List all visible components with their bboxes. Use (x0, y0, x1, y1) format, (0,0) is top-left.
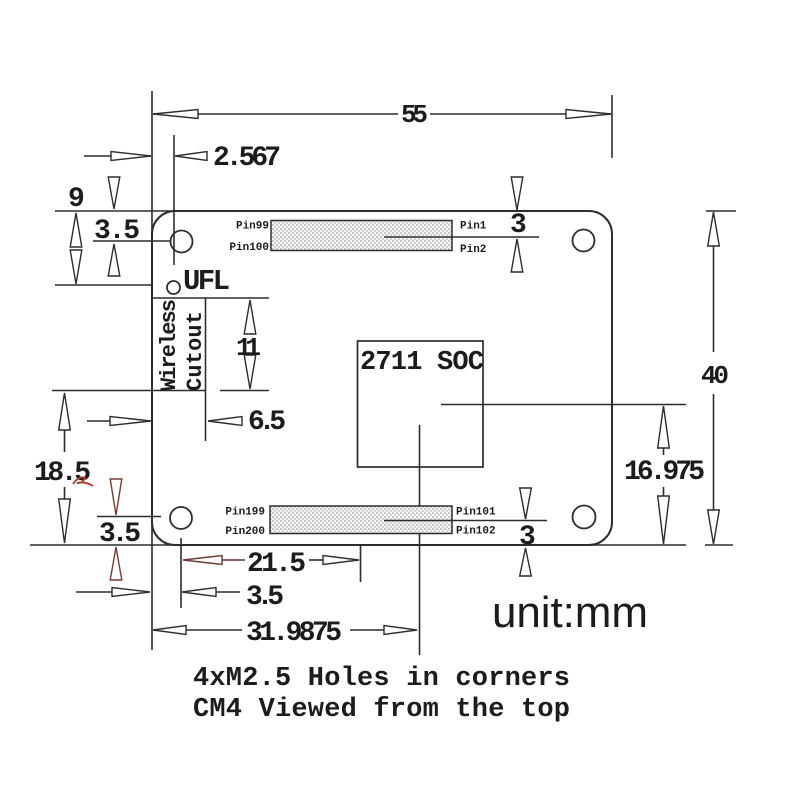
wire bottom hole center extension x=181 (180, 538, 182, 608)
svg-text:16.975: 16.975 (624, 457, 705, 488)
wire SOC center vertical leader x=419.5 (419, 425, 421, 655)
wire UFL reference line y=285 (55, 284, 152, 286)
arrow 3.5h right-outside (182, 588, 216, 597)
wire 40 top tick y=211 (706, 210, 736, 212)
UFL connector circle (167, 281, 180, 294)
svg-text:2711 SOC: 2711 SOC (360, 348, 484, 378)
arrow 31.9875 left (153, 626, 186, 635)
dimension 6.5 tail line (87, 420, 110, 422)
hole top-left M2.5 (171, 231, 193, 253)
SOC box (358, 341, 484, 467)
board outline CM4 (152, 211, 612, 545)
arrow 6.5 left-outside (110, 417, 151, 426)
arrow 21.5 right (323, 556, 359, 565)
wire extension line left board edge x=152 (151, 91, 153, 650)
arrow 3.5bl down-outside red tinted (110, 479, 122, 515)
arrow 18.5 down (59, 499, 71, 543)
wire extension line x=174 UFL center for 2.567 dim (173, 135, 175, 265)
wire bottom connector centerline y=520.5 (384, 520, 547, 522)
svg-text:Pin101: Pin101 (456, 507, 496, 519)
red pen squiggle near 18.5 (73, 477, 93, 486)
wire 21.5 right tick x=360.5 (360, 544, 362, 582)
svg-text:Pin99: Pin99 (236, 221, 269, 233)
dimension 21.5 line segments y=560 (222, 559, 245, 561)
arrow 3top up-outside (511, 239, 523, 272)
arrow 40 down (708, 510, 720, 544)
arrow 3bottom up-outside (520, 548, 532, 576)
arrow 2.567 left-outside (111, 152, 151, 161)
arrow 9 up (70, 213, 82, 247)
dimension 3.5h line segments y=592 (76, 591, 113, 593)
svg-text:Pin200: Pin200 (225, 526, 265, 538)
wire bottom edge extension y=545 (30, 544, 686, 546)
arrow 3.5h left-outside (112, 588, 150, 597)
svg-text:6.5: 6.5 (248, 407, 286, 438)
svg-text:3: 3 (519, 522, 536, 553)
wire bottom hole reference line y=516.5 (97, 516, 161, 518)
arrow 31.9875 right (384, 626, 417, 635)
wire top edge extension y=211 (55, 210, 589, 212)
arrow 3.5top down-outside (108, 177, 120, 209)
svg-text:4xM2.5 Holes in corners: 4xM2.5 Holes in corners (193, 664, 570, 694)
arrow 3.5top up-outside (108, 244, 120, 276)
svg-text:unit:mm: unit:mm (492, 588, 648, 637)
svg-text:21.5: 21.5 (247, 549, 306, 580)
dimension 40 line segments x=713.5 (713, 244, 715, 352)
hole bottom-right M2.5 (573, 506, 596, 529)
dimension 31.9875 line segments y=630 (186, 629, 242, 631)
arrow 3.5bl up-outside red tinted (110, 547, 122, 580)
svg-text:3.5: 3.5 (246, 582, 284, 613)
arrow 55 right (566, 110, 611, 119)
svg-text:CM4 Viewed from the top: CM4 Viewed from the top (193, 695, 570, 725)
wire SOC center leader y=404.5 (441, 404, 686, 406)
wire extension line right x=612 for 55 dim (611, 95, 613, 158)
dimension 18.5 line segments x=64.5 (64, 429, 66, 452)
arrow 2.567 right (175, 152, 207, 161)
svg-text:Pin100: Pin100 (229, 242, 269, 254)
svg-text:Wireless: Wireless (157, 299, 182, 391)
svg-text:11: 11 (236, 333, 261, 363)
wire hole-center reference line y=241 (93, 240, 170, 242)
wire cutout bottom line y=390.5 (52, 390, 206, 392)
dimension 55 line y=114 (153, 113, 398, 115)
wire cutout right edge x=205.5 (205, 298, 207, 441)
arrow 18.5 up (59, 393, 71, 430)
svg-text:40: 40 (701, 361, 729, 391)
svg-text:55: 55 (401, 100, 428, 130)
arrow 9 down (70, 250, 82, 284)
arrow 16.975 down (658, 496, 670, 544)
arrow 21.5 left red tinted (183, 556, 222, 565)
connector top hatched (271, 221, 452, 251)
wire cutout top line y=298 (152, 297, 269, 299)
svg-text:18.5: 18.5 (34, 458, 91, 489)
wire 40 bottom tick y=545 (705, 544, 733, 546)
svg-text:31.9875: 31.9875 (246, 618, 342, 649)
svg-text:3.5: 3.5 (94, 216, 140, 247)
svg-text:UFL: UFL (183, 265, 230, 298)
dimension 16.975 line segments x=663.5 (663, 444, 665, 455)
hole top-right M2.5 (573, 230, 595, 252)
svg-text:Pin102: Pin102 (456, 526, 496, 538)
arrow 11 down (244, 355, 256, 389)
arrow 11 up (244, 300, 256, 334)
svg-text:Pin2: Pin2 (460, 244, 486, 256)
arrow 16.975 up (658, 406, 670, 448)
connector bottom hatched (270, 506, 452, 534)
svg-text:Cutout: Cutout (183, 311, 208, 391)
svg-text:3.5: 3.5 (99, 519, 141, 550)
hole bottom-left M2.5 (170, 507, 192, 529)
wire top connector centerline y=237 (384, 236, 539, 238)
svg-text:Pin199: Pin199 (225, 507, 265, 519)
svg-text:Pin1: Pin1 (460, 221, 487, 233)
arrow 40 up (708, 212, 720, 246)
svg-text:3: 3 (510, 210, 527, 241)
arrow 6.5 right-outside (208, 417, 242, 426)
dimension 2.567 tail line (84, 155, 151, 157)
wire 11-dim bottom reference line (220, 390, 269, 392)
arrow 3bottom down-outside (520, 488, 532, 519)
arrow 3top down-outside (511, 177, 523, 210)
arrow 55 left (153, 110, 198, 119)
svg-text:9: 9 (68, 184, 85, 215)
svg-text:2.567: 2.567 (213, 143, 281, 174)
